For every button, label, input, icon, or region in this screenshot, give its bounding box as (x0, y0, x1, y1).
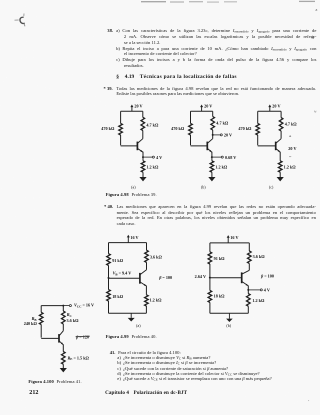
svg-text:4 V: 4 V (156, 155, 162, 160)
svg-text:20 V: 20 V (204, 104, 212, 109)
wire bottom rail (d) (109, 312, 147, 314)
transistor Q (f) (41, 331, 63, 345)
svg-text:a: a (316, 7, 318, 12)
supply 16 V arrow (d) (127, 235, 139, 243)
svg-text:VCC = 16 V: VCC = 16 V (74, 303, 94, 309)
wire RB bottom to base (f) (40, 325, 42, 338)
terminal VE (b) (221, 156, 223, 158)
wire RC bottom to collector (a) (142, 131, 144, 139)
wire RC bottom to collector (e) (248, 263, 250, 270)
node VE dot (b) (211, 156, 213, 158)
svg-text:470 kΩ: 470 kΩ (101, 126, 115, 131)
resistor RC 3.6k (f) (62, 311, 66, 324)
wire RC bottom to collector (b) (212, 130, 214, 139)
node VE dot (e) (247, 289, 249, 291)
supply 20 V arrow (b) (200, 104, 212, 112)
ground (c) (277, 177, 284, 181)
svg-text:1.2 kΩ: 1.2 kΩ (252, 298, 265, 303)
wire VE probe lead (a) (143, 156, 152, 158)
wire RB top (f) (40, 306, 42, 313)
svg-text:−: − (289, 155, 292, 160)
svg-text:18 kΩ: 18 kΩ (214, 293, 226, 298)
wire top rail (f) (41, 305, 63, 307)
svg-text:1.2 kΩ: 1.2 kΩ (284, 164, 297, 169)
svg-text:β = 120: β = 120 (75, 335, 89, 340)
svg-text:(a): (a) (131, 184, 136, 189)
svg-text:3.6 kΩ: 3.6 kΩ (253, 254, 266, 259)
transistor Q (b) (191, 139, 213, 153)
resistor R1 91k (e) (208, 252, 212, 264)
svg-text:1.2 kΩ: 1.2 kΩ (146, 164, 159, 169)
svg-text:3.6 kΩ: 3.6 kΩ (150, 255, 163, 260)
terminal VE (a) (152, 156, 154, 158)
terminal VC (b) (220, 134, 222, 136)
resistor RC 4.7k (c) (279, 118, 283, 131)
svg-text:20 V: 20 V (288, 146, 296, 151)
wire R2 to bottom rail (d) (108, 301, 110, 313)
wire R1 top (d) (108, 243, 110, 254)
svg-text:2.64 V: 2.64 V (195, 274, 206, 279)
wire RB bottom to base (b) (190, 135, 192, 145)
svg-text:1.2 kΩ: 1.2 kΩ (215, 164, 228, 169)
node VC dot (b) (212, 134, 214, 136)
ground (d) (128, 318, 135, 322)
wire R1 top (e) (209, 243, 211, 252)
resistor RB 240k (f) (39, 312, 43, 324)
transistor Q (d) (109, 270, 147, 286)
wire top rail (a) (121, 110, 143, 112)
wire VE probe lead (b) (212, 156, 221, 158)
wire RB top (b) (190, 111, 192, 123)
wire ground stem (d) (130, 313, 132, 318)
svg-text:91 kΩ: 91 kΩ (112, 258, 124, 263)
resistor R2 18k (e) (208, 290, 212, 302)
resistor RC 3.6k (e) (248, 251, 252, 263)
wire RB bottom to base (a) (120, 135, 122, 145)
resistor RC 4.7k (a) (141, 117, 145, 130)
svg-text:(a): (a) (136, 323, 141, 328)
handwritten margin mark top-left (15, 14, 26, 27)
cut-off text row at very top (141, 0, 315, 3)
svg-text:RE = 1.5 kΩ: RE = 1.5 kΩ (68, 355, 90, 361)
wire RE to ground (c) (279, 172, 281, 177)
wire Vcc lead (f) (63, 305, 69, 307)
wire RC bottom to collector (f) (62, 324, 64, 331)
svg-text:β = 100: β = 100 (158, 275, 172, 280)
svg-text:+: + (289, 134, 292, 139)
wire RC top (d) (146, 243, 148, 251)
supply 20 V arrow (c) (268, 104, 280, 112)
wire RC top (f) (62, 306, 64, 311)
wire RE to ground (b) (211, 172, 213, 177)
wire RE to ground (a) (142, 172, 144, 177)
wire ground stem (e) (228, 313, 230, 318)
wire VC probe lead (b) (213, 134, 221, 136)
wire emitter column (c) (279, 152, 281, 161)
wire R1 bottom to base node (e) (209, 264, 211, 278)
svg-text:470 kΩ: 470 kΩ (238, 126, 252, 131)
svg-text:20 V: 20 V (134, 104, 142, 109)
terminal Vcc (f) (69, 305, 71, 307)
wire top rail (e) (210, 242, 249, 244)
svg-text:20 V: 20 V (224, 133, 232, 138)
svg-text:91 kΩ: 91 kΩ (214, 256, 226, 261)
svg-text:β = 100: β = 100 (260, 274, 274, 279)
resistor RB 470k (a) (119, 123, 123, 135)
wire top rail (b) (191, 110, 213, 112)
wire RC bottom to collector (d) (146, 262, 148, 269)
ground (e) (226, 319, 233, 322)
wire RB top (a) (120, 111, 122, 123)
svg-text:(b): (b) (226, 323, 231, 328)
svg-text:20 V: 20 V (272, 104, 280, 109)
supply 16 V arrow (e) (227, 235, 239, 243)
svg-text:4.7 kΩ: 4.7 kΩ (146, 122, 159, 127)
wire RB bottom to base (c) (257, 135, 259, 145)
wire base node down (e) (209, 278, 211, 291)
resistor RC 4.7k (b) (211, 117, 215, 131)
node VE dot (a) (142, 156, 144, 158)
wire top rail (d) (109, 242, 147, 244)
svg-text:240 kΩ: 240 kΩ (24, 321, 38, 326)
svg-text:0.68 V: 0.68 V (225, 155, 236, 160)
wire emitter column (b) (211, 152, 213, 161)
transistor Q (c) (258, 139, 281, 153)
wire RC top (b) (212, 111, 214, 116)
supply 20 V arrow (a) (130, 104, 142, 112)
wire RE to bottom rail (e) (247, 306, 249, 313)
wire RC bottom to collector (c) (280, 131, 282, 139)
resistor RE 1.2k (c) (278, 161, 282, 172)
resistor RE 1.2k (e) (247, 294, 251, 307)
transistor Q (e) (210, 270, 249, 286)
svg-text:3.6 kΩ: 3.6 kΩ (67, 318, 80, 323)
resistor RE (f) (62, 352, 66, 365)
wire base node down (d) (108, 278, 110, 290)
wire RC top (e) (248, 243, 250, 251)
svg-text:16 V: 16 V (130, 235, 138, 240)
wire emitter column (e) (247, 286, 249, 294)
svg-text:4.7 kΩ: 4.7 kΩ (285, 121, 298, 126)
wire emitter column (f) (62, 344, 64, 351)
node base junction (d) (108, 277, 110, 279)
svg-text:470 kΩ: 470 kΩ (171, 126, 185, 131)
terminal VE (e) (260, 289, 262, 291)
resistor RB 470k (b) (189, 123, 193, 135)
wire RC top (c) (280, 111, 282, 117)
svg-text:18 kΩ: 18 kΩ (112, 294, 124, 299)
wire RE to bottom rail (d) (145, 306, 147, 313)
wire bottom rail (e) (210, 312, 248, 314)
svg-text:4 V: 4 V (264, 287, 270, 292)
ground (f) (60, 368, 67, 372)
svg-text:4.7 kΩ: 4.7 kΩ (216, 121, 229, 126)
resistor RC 3.6k (d) (145, 250, 149, 262)
wire RC top (a) (142, 111, 144, 117)
resistor RE 1.2k (d) (145, 295, 149, 306)
resistor R1 91k (d) (107, 254, 111, 266)
wire R2 to bottom rail (e) (209, 302, 211, 313)
wire R1 bottom to base node (d) (108, 265, 110, 278)
wire top rail (c) (258, 110, 281, 112)
wire emitter column (a) (142, 152, 144, 161)
node Vcc junction (f) (62, 305, 64, 307)
svg-text:(c): (c) (269, 184, 274, 189)
svg-text:1.2 kΩ: 1.2 kΩ (150, 298, 163, 303)
wire RE to ground (f) (62, 364, 64, 368)
svg-text:(b): (b) (201, 184, 206, 189)
resistor R2 18k (d) (107, 290, 111, 301)
wire VE probe lead (e) (248, 289, 260, 291)
resistor RE 1.2k (a) (141, 161, 145, 172)
svg-text:VB = 9.4 V: VB = 9.4 V (113, 271, 132, 277)
resistor RE 1.2k (b) (210, 161, 214, 172)
wire RB top (c) (257, 111, 259, 123)
ground (a) (139, 177, 146, 181)
wire emitter column (d) (145, 286, 147, 295)
ground (b) (208, 177, 215, 181)
svg-text:RC: RC (67, 312, 73, 318)
transistor Q (a) (121, 139, 143, 153)
svg-text:16 V: 16 V (230, 235, 238, 240)
smear line across beta label (f) (76, 335, 90, 338)
node base junction (e) (209, 277, 211, 279)
resistor RB 470k (c) (256, 123, 260, 135)
